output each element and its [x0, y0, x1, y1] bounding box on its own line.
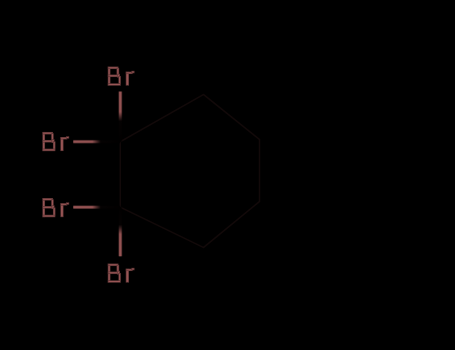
atom label Br (bottom) — [108, 264, 134, 283]
atom label Br (top) — [108, 67, 134, 86]
atom label Br (left-top) — [43, 132, 69, 151]
bond C2-Br (bottom vertical) — [118, 207, 122, 256]
bond C1-Br (top vertical) — [118, 92, 122, 142]
bond C1-Br (left-top horizontal) — [73, 140, 120, 144]
bond C2-Br (left-bottom horizontal) — [73, 205, 120, 209]
atom label Br (left-bottom) — [43, 198, 69, 217]
carbon ring (very faint) — [120, 95, 259, 248]
